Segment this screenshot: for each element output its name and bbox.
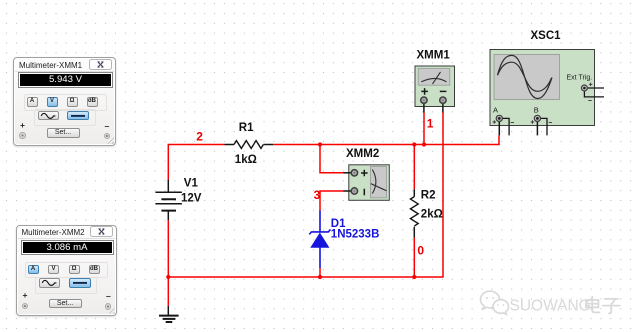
- svg-text:A: A: [493, 106, 498, 115]
- wire net 2: R1 right side across to XSC1 channel A riser: [273, 135, 499, 144]
- svg-text:1: 1: [427, 117, 434, 131]
- XMM1 + lead: [423, 100, 425, 112]
- svg-text:V1: V1: [184, 178, 199, 190]
- XMM1 plus mark: [421, 88, 428, 95]
- XSC1 channel A plus/minus marks: [493, 120, 514, 123]
- multimeter icon XMM1 body: [415, 66, 455, 107]
- svg-text:1kΩ: 1kΩ: [235, 154, 257, 166]
- resistor R2: [410, 189, 418, 237]
- XSC1 channel A pin stub: [499, 118, 509, 135]
- junction: net2 / R2: [412, 142, 416, 146]
- XSC1 screen sine trace (large): [498, 55, 553, 98]
- XMM2 - lead: [343, 190, 354, 192]
- XMM2 meter needle: [371, 184, 387, 191]
- wire net 2: junction down to R2 top lead: [413, 145, 415, 190]
- svg-text:XMM1: XMM1: [417, 50, 451, 62]
- XMM1 - terminal: [440, 97, 446, 103]
- svg-text:SUOWANG: SUOWANG: [510, 298, 591, 315]
- oscilloscope XSC1 body: [490, 50, 595, 126]
- XMM2 - terminal: [351, 188, 357, 194]
- multimeter window XMM1: [13, 57, 116, 146]
- junction: net2 / XMM1+: [422, 142, 426, 146]
- wire net 0: R2 bottom lead to rail: [413, 238, 415, 277]
- svg-text:2kΩ: 2kΩ: [421, 209, 443, 221]
- resistor R1: [225, 141, 274, 149]
- XMM2 + terminal: [351, 170, 357, 176]
- ground symbol: [159, 306, 179, 322]
- svg-text:3: 3: [314, 188, 321, 202]
- XSC1 channel B lead: [536, 118, 538, 135]
- wire net 1: XMM1 + down to net: [423, 112, 425, 144]
- svg-text:0: 0: [417, 243, 424, 257]
- svg-text:1N5233B: 1N5233B: [331, 229, 380, 241]
- wire net 2: battery + up and right to R1: [168, 145, 224, 180]
- svg-text:XSC1: XSC1: [531, 30, 562, 42]
- watermark: [478, 288, 638, 332]
- junction: net2 / XMM2+: [318, 142, 322, 146]
- multimeter window XMM2: [16, 225, 117, 316]
- svg-text:B: B: [534, 106, 539, 115]
- XSC1 ext trig terminal: [581, 85, 587, 91]
- wire net 0: D1 anode to bottom rail: [319, 268, 321, 277]
- wire net 0: XMM1 - down to bottom rail: [414, 112, 443, 277]
- XMM1 meter needle: [433, 72, 441, 84]
- XMM1 - lead: [442, 100, 444, 112]
- battery V1: [155, 180, 182, 221]
- XSC1 ext trig plus/minus marks: [588, 83, 592, 101]
- zener diode D1: [309, 211, 330, 269]
- XMM1 minus mark: [440, 90, 447, 92]
- XSC1 ext trig pin stubs: [584, 88, 604, 97]
- svg-text:12V: 12V: [181, 193, 202, 205]
- XMM2 minus mark (vertical bar): [363, 189, 365, 196]
- svg-text:R1: R1: [239, 122, 254, 134]
- XMM2 meter scale arc: [372, 170, 376, 194]
- svg-text:Ext Trig.: Ext Trig.: [567, 75, 593, 82]
- XMM1 + terminal: [421, 97, 427, 103]
- svg-text:R2: R2: [421, 190, 436, 202]
- junction: ground rail / battery: [166, 275, 170, 279]
- XSC1 channel A lead: [498, 118, 500, 135]
- XSC1 channel B terminal: [534, 115, 540, 121]
- wire net 3: XMM2 - left and down to D1: [320, 191, 344, 211]
- XMM2 + lead: [343, 172, 354, 174]
- multimeter icon XMM2 body: [349, 165, 390, 201]
- XMM1 meter scale arc: [421, 78, 446, 81]
- wire net 0: bottom ground rail: [168, 220, 414, 305]
- XSC1 screen sine trace (small): [498, 62, 552, 91]
- XSC1 channel B plus/minus marks: [531, 120, 552, 123]
- XMM2 plus mark: [361, 170, 368, 177]
- junction: ground rail / D1: [318, 275, 322, 279]
- svg-text:XMM2: XMM2: [346, 148, 379, 160]
- wire net 2: junction down to XMM2 +: [320, 145, 344, 173]
- svg-text:2: 2: [196, 129, 203, 143]
- XSC1 channel B pin stub: [537, 118, 547, 135]
- junction: ground rail / R2: [412, 275, 416, 279]
- XSC1 channel A terminal: [496, 115, 502, 121]
